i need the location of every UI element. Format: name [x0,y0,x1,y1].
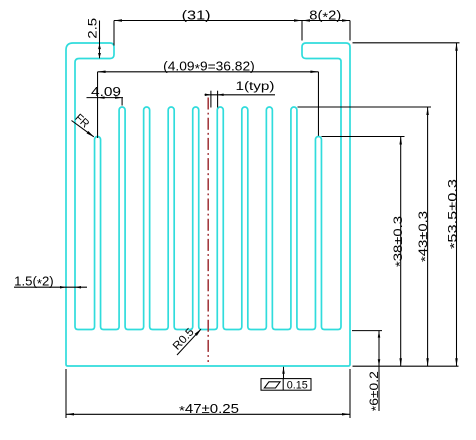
svg-text:0.15: 0.15 [287,379,308,391]
svg-text:(4.09*9=36.82): (4.09*9=36.82) [163,59,255,76]
svg-text:*38±0.3: *38±0.3 [391,216,407,267]
svg-text:*6±0.2: *6±0.2 [367,371,383,411]
svg-text:1(typ): 1(typ) [236,81,275,93]
svg-text:1.5(*2): 1.5(*2) [14,274,53,291]
svg-text:*47±0.25: *47±0.25 [179,401,239,418]
svg-text:4.09: 4.09 [91,84,121,99]
svg-text:*53.5±0.3: *53.5±0.3 [445,179,461,249]
svg-text:(31): (31) [182,8,211,23]
svg-text:2.5: 2.5 [85,17,99,38]
svg-text:8(*2): 8(*2) [309,7,341,24]
svg-text:*43±0.3: *43±0.3 [416,211,432,262]
